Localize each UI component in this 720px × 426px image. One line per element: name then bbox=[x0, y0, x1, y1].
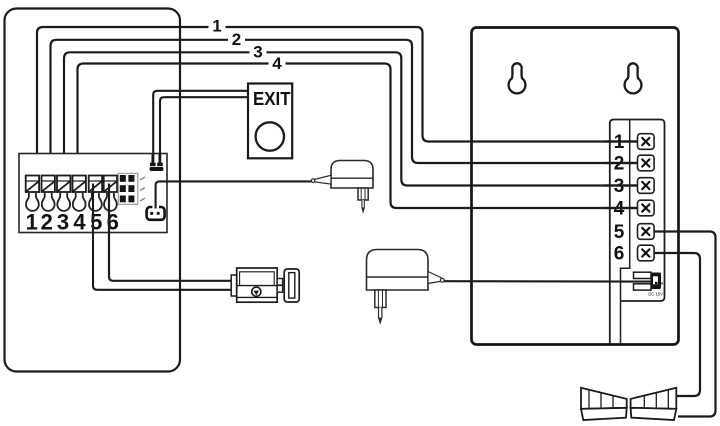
door bell left horn bbox=[581, 388, 627, 409]
wire label 1 bbox=[209, 17, 226, 36]
svg-text:5: 5 bbox=[90, 210, 102, 235]
wire 1 overlay across number bbox=[604, 140, 638, 142]
wire 4 (screw 4 to monitor terminal 4) bbox=[78, 64, 638, 209]
monitor screw terminal 6 bbox=[638, 245, 655, 261]
mounting keyhole left bbox=[509, 63, 526, 93]
svg-text:1: 1 bbox=[212, 17, 221, 36]
outdoor station enclosure bbox=[5, 9, 181, 372]
monitor screw terminal 4 bbox=[638, 200, 655, 216]
wire adapter PS2 to DC jack bbox=[444, 280, 651, 282]
screw terminal 3 bbox=[57, 176, 70, 211]
wire to exit button (upper) bbox=[153, 91, 248, 162]
screw terminal 4 bbox=[73, 176, 86, 211]
svg-text:4: 4 bbox=[73, 210, 86, 235]
mounting keyhole right bbox=[625, 63, 642, 93]
svg-text:DC 15V: DC 15V bbox=[648, 292, 663, 297]
monitor screw terminal 2 bbox=[638, 155, 655, 171]
svg-text:1: 1 bbox=[26, 210, 38, 235]
terminal block outline bbox=[19, 154, 167, 233]
wire terminal 6 to door bell (upper) bbox=[655, 253, 701, 396]
monitor screw terminal 3 bbox=[638, 178, 655, 194]
power adapter PS2 bbox=[367, 250, 445, 323]
svg-text:2: 2 bbox=[41, 210, 53, 235]
door bell left base bbox=[581, 408, 627, 420]
wire screw5 to electric strike (lower) bbox=[93, 184, 232, 290]
wire 2 overlay across number bbox=[604, 162, 638, 164]
screw terminal 6 bbox=[104, 176, 117, 211]
cable channel below plate bbox=[609, 123, 611, 344]
wire from power socket J2 to adapter PS1 bbox=[156, 181, 312, 208]
wire to exit button (lower) bbox=[160, 97, 248, 162]
DC jack socket bbox=[634, 272, 663, 290]
door bell right base bbox=[631, 408, 677, 420]
screw terminal 1 bbox=[26, 176, 39, 211]
screw terminal 5 bbox=[89, 176, 102, 211]
power adapter PS1 bbox=[311, 161, 373, 212]
monitor unit enclosure bbox=[472, 28, 679, 345]
svg-text:EXIT: EXIT bbox=[253, 88, 291, 109]
wire 3 (screw 3 to monitor terminal 3) bbox=[64, 52, 638, 185]
door bell right horn bbox=[631, 388, 677, 409]
connector J1 exit-button header bbox=[150, 154, 164, 171]
wire 3 overlay across number bbox=[604, 184, 638, 186]
wire 1 (screw 1 to monitor terminal 1) bbox=[37, 27, 638, 182]
svg-text:4: 4 bbox=[272, 54, 282, 73]
connector J2 power socket bbox=[147, 205, 165, 220]
wire label 3 bbox=[250, 42, 267, 61]
svg-text:3: 3 bbox=[57, 210, 69, 235]
svg-text:2: 2 bbox=[232, 30, 241, 49]
wire screw6 to electric strike (upper) bbox=[109, 184, 232, 281]
svg-text:6: 6 bbox=[614, 244, 625, 265]
electric strike lock bbox=[231, 268, 299, 302]
jumper block JP1-JP3 bbox=[118, 173, 145, 204]
wire 2 (screw 2 to monitor terminal 2) bbox=[51, 40, 638, 182]
terminal cover plate bbox=[614, 120, 665, 302]
svg-text:5: 5 bbox=[614, 222, 625, 243]
exit button bbox=[248, 84, 292, 159]
svg-text:3: 3 bbox=[253, 42, 262, 61]
wire 4 overlay across number bbox=[604, 207, 638, 209]
screw terminal 2 bbox=[42, 176, 55, 211]
monitor screw terminal 5 bbox=[638, 224, 655, 240]
wire label 4 bbox=[269, 54, 286, 73]
wire label 2 bbox=[228, 30, 245, 49]
monitor screw terminal 1 bbox=[638, 134, 655, 150]
wire terminal 5 to door bell (lower) bbox=[655, 232, 716, 417]
